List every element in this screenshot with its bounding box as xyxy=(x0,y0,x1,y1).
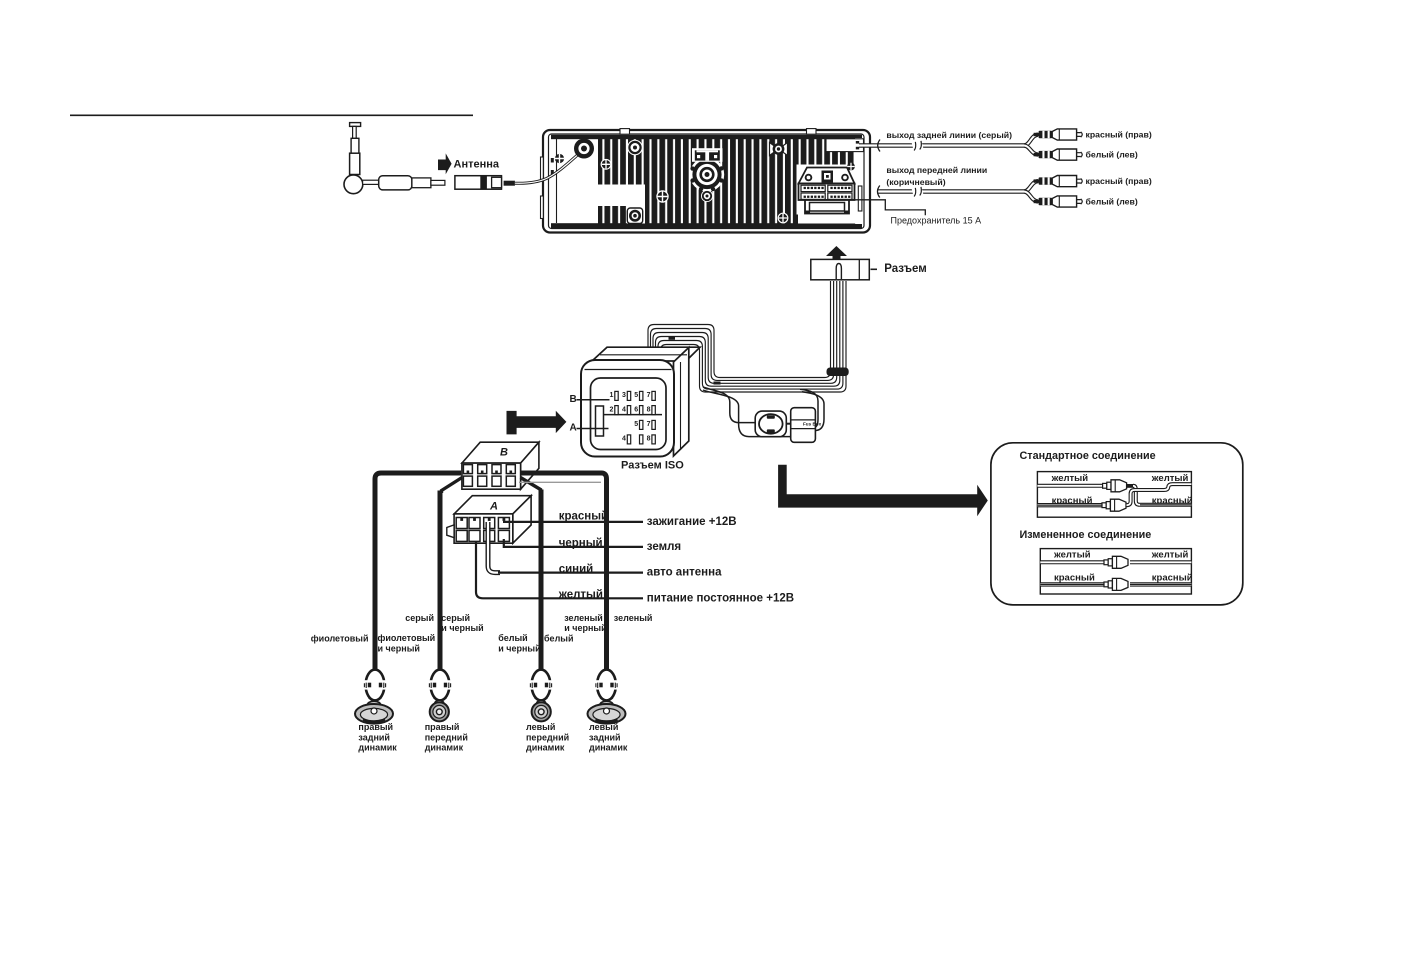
svg-text:Разъем: Разъем xyxy=(884,263,927,275)
RCA plug red right (front) + label xyxy=(1034,176,1083,187)
svg-text:(коричневый): (коричневый) xyxy=(886,177,945,187)
standard connection frame xyxy=(1037,472,1191,518)
wires from bundle to fuse box xyxy=(800,389,818,427)
svg-text:выход передней линии: выход передней линии xyxy=(886,165,987,175)
svg-text:6: 6 xyxy=(634,406,638,413)
bullet connector (modified red) xyxy=(1104,578,1128,590)
svg-text:красный: красный xyxy=(1054,573,1095,584)
svg-text:A: A xyxy=(489,501,498,513)
modified connection frame xyxy=(1040,549,1191,594)
speaker 1 loop xyxy=(362,670,388,704)
unit screw: antenna cable connector top-left xyxy=(574,139,594,159)
wire желтый / питание xyxy=(476,541,643,598)
svg-text:B: B xyxy=(570,394,577,405)
svg-text:4: 4 xyxy=(622,406,626,413)
svg-text:красный (прав): красный (прав) xyxy=(1086,130,1152,140)
RCA plug white left (front) + label xyxy=(1034,196,1083,207)
connector block A xyxy=(447,496,531,544)
svg-text:Разъем ISO: Разъем ISO xyxy=(621,459,684,471)
svg-text:белый (лев): белый (лев) xyxy=(1086,197,1138,207)
antenna mast plug xyxy=(344,123,445,194)
wire: front cable split xyxy=(1024,181,1038,191)
svg-text:Предохранитель 15 А: Предохранитель 15 А xyxy=(891,216,982,226)
unit screw bottom-left on plate xyxy=(627,208,642,224)
svg-text:2: 2 xyxy=(610,406,614,413)
ISO pin rows xyxy=(610,391,656,444)
unit screw bottom right of fins xyxy=(778,213,789,224)
unit screw left small xyxy=(555,154,564,163)
svg-text:выход задней линии (серый): выход задней линии (серый) xyxy=(886,130,1012,140)
wire loop under connector xyxy=(703,390,791,437)
svg-text:Измененное соединение: Измененное соединение xyxy=(1020,529,1152,541)
wire: front line output cable xyxy=(877,189,1027,194)
svg-text:желтый: желтый xyxy=(1053,550,1091,561)
unit screw top center-left xyxy=(627,140,643,156)
tie mark on bundle upper run xyxy=(669,337,676,340)
tie mark on bundle lower run xyxy=(714,382,721,385)
svg-text:4: 4 xyxy=(622,436,626,443)
svg-text:5: 5 xyxy=(634,392,638,399)
svg-text:фиолетовый: фиолетовый xyxy=(378,633,436,643)
svg-text:красный: красный xyxy=(1152,573,1193,584)
speaker wire right pair from block B xyxy=(520,473,607,670)
unit ISO socket housing xyxy=(799,168,855,214)
connector block B xyxy=(462,442,539,489)
arrow to antenna socket xyxy=(438,153,452,174)
svg-text:8: 8 xyxy=(647,436,651,443)
wire красный / зажигание xyxy=(503,521,643,523)
speaker left rear (oval) xyxy=(588,701,626,723)
bullet connector (standard red) xyxy=(1102,499,1126,511)
svg-text:Антенна: Антенна xyxy=(454,158,500,170)
label Разъем xyxy=(871,268,878,270)
svg-text:фиолетовый: фиолетовый xyxy=(311,634,369,644)
connector box (Разъем) xyxy=(811,259,870,279)
crossover wires (standard) xyxy=(1133,486,1191,505)
svg-text:желтый: желтый xyxy=(558,589,603,601)
ISO connector 3D body xyxy=(581,347,700,456)
svg-text:Стандартное соединение: Стандартное соединение xyxy=(1020,450,1156,462)
svg-text:зеленый: зеленый xyxy=(564,613,603,623)
bullet connector (standard yellow) xyxy=(1103,480,1127,492)
antenna lead oval connector xyxy=(755,411,786,437)
speaker 3 loop xyxy=(528,670,554,704)
fuse pointer line xyxy=(851,200,925,216)
unit screw mid center xyxy=(656,190,668,202)
up arrow above connector xyxy=(826,246,847,259)
wire yellow left (standard) xyxy=(1037,484,1102,488)
svg-text:8: 8 xyxy=(647,406,651,413)
svg-text:синий: синий xyxy=(559,563,594,575)
RCA plug red right (rear) + label xyxy=(1034,129,1083,140)
svg-text:5: 5 xyxy=(634,421,638,428)
svg-text:Fus Box: Fus Box xyxy=(803,422,822,427)
speaker left front (round) xyxy=(532,700,551,721)
svg-text:A: A xyxy=(570,423,577,434)
stereo unit rear chassis xyxy=(541,129,871,233)
svg-text:7: 7 xyxy=(647,392,651,399)
wire oval to fuse box xyxy=(786,423,790,425)
svg-text:зеленый: зеленый xyxy=(614,613,653,623)
wire yellow straight (modified) xyxy=(1040,560,1104,564)
fuse box xyxy=(791,408,822,443)
svg-text:земля: земля xyxy=(647,541,681,553)
svg-text:белый: белый xyxy=(498,633,528,643)
speaker right rear (oval) xyxy=(355,701,393,723)
speaker 2 loop xyxy=(427,670,453,704)
svg-text:желтый: желтый xyxy=(1151,550,1189,561)
svg-text:7: 7 xyxy=(647,421,651,428)
speaker right front (round) xyxy=(430,700,449,721)
unit block above central jack xyxy=(692,148,723,162)
svg-text:белый: белый xyxy=(544,634,574,644)
svg-text:красный (прав): красный (прав) xyxy=(1086,176,1152,186)
svg-text:и черный: и черный xyxy=(564,623,606,633)
cable clamp on bundle xyxy=(827,368,849,377)
black arrow into ISO connector xyxy=(507,411,567,435)
svg-text:и черный: и черный xyxy=(498,643,540,653)
unit screw on fins left xyxy=(601,159,612,170)
svg-text:и черный: и черный xyxy=(378,643,420,653)
svg-text:зажигание +12В: зажигание +12В xyxy=(647,516,737,528)
svg-text:B: B xyxy=(500,447,508,459)
bullet connector (modified yellow) xyxy=(1104,556,1128,568)
speaker 4 loop xyxy=(594,670,620,704)
wire red straight (modified) xyxy=(1040,582,1104,586)
svg-text:авто антенна: авто антенна xyxy=(647,567,722,579)
unit screw below central jack xyxy=(701,190,713,202)
wire: rear line output cable xyxy=(859,143,1027,148)
unit small screw near housing top-right xyxy=(847,163,855,171)
connection examples box xyxy=(991,443,1243,605)
wire синий / авто антенна xyxy=(488,522,500,573)
svg-text:питание постоянное +12В: питание постоянное +12В xyxy=(647,592,794,604)
wire red left (standard) xyxy=(1037,503,1102,507)
svg-text:серый: серый xyxy=(405,613,434,623)
svg-text:красный: красный xyxy=(559,511,608,523)
unit right panel slot xyxy=(858,186,862,211)
svg-text:3: 3 xyxy=(622,392,626,399)
RCA plug white left (rear) + label xyxy=(1034,149,1083,160)
wire: rear cable split xyxy=(1024,135,1038,146)
svg-text:и черный: и черный xyxy=(441,623,483,633)
big arrow to connection examples box xyxy=(778,465,988,516)
wire bundle from connector to ISO plug xyxy=(648,281,846,392)
wire to antenna lead connector xyxy=(703,387,756,423)
svg-text:белый (лев): белый (лев) xyxy=(1086,150,1138,160)
speaker wire left pair from block B xyxy=(375,473,461,670)
top horizontal rule xyxy=(70,114,473,116)
unit central antenna jack xyxy=(690,157,724,191)
svg-text:серый: серый xyxy=(441,613,470,623)
antenna cable to unit xyxy=(515,152,582,184)
svg-text:1: 1 xyxy=(610,392,614,399)
unit rear-output plate marks xyxy=(826,139,864,152)
antenna socket xyxy=(455,176,515,190)
wire черный / земля xyxy=(504,539,643,547)
svg-text:желтый: желтый xyxy=(1051,473,1089,484)
unit screw with wings top-right xyxy=(770,143,788,156)
svg-text:черный: черный xyxy=(559,538,603,550)
